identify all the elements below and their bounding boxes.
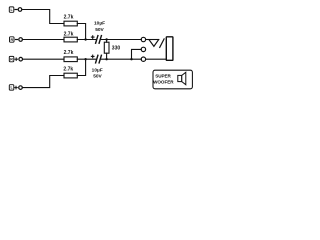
svg-text:330: 330 — [112, 46, 121, 52]
svg-text:R: R — [10, 38, 13, 42]
svg-text:2.7k: 2.7k — [64, 15, 74, 21]
svg-text:50V: 50V — [95, 27, 104, 33]
svg-text:SUPER: SUPER — [155, 74, 171, 79]
svg-text:WOOFER: WOOFER — [153, 80, 174, 85]
svg-text:50V: 50V — [93, 73, 102, 79]
svg-text:2.7k: 2.7k — [64, 31, 74, 37]
svg-text:2.7k: 2.7k — [64, 50, 74, 56]
svg-text:2.7k: 2.7k — [63, 66, 73, 72]
svg-text:R: R — [10, 57, 13, 61]
svg-text:10µF: 10µF — [92, 67, 103, 73]
svg-text:10µF: 10µF — [94, 20, 105, 26]
